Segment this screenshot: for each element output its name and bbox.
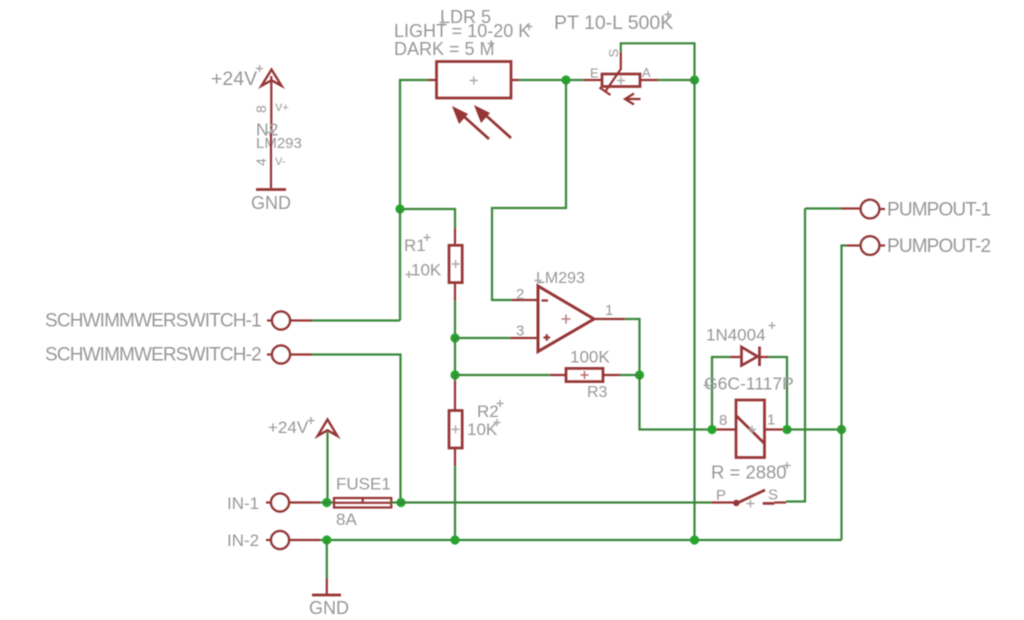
svg-text:100K: 100K (570, 348, 610, 367)
svg-text:R2: R2 (477, 402, 499, 421)
wire SCHWIMMWERSWITCH-1 to node (312, 319, 400, 321)
svg-text:+24V: +24V (211, 68, 257, 90)
junction at 566,80 (561, 75, 570, 84)
pot terminal label A (642, 65, 651, 80)
svg-text:DARK = 5 M: DARK = 5 M (394, 39, 495, 59)
pin name V- (275, 156, 286, 168)
svg-text:G6C-1117P: G6C-1117P (704, 374, 794, 394)
pin number 3 (516, 323, 524, 340)
svg-text:SCHWIMMWERSWITCH-1: SCHWIMMWERSWITCH-1 (45, 311, 261, 332)
svg-text:4: 4 (253, 158, 269, 166)
svg-text:LIGHT = 10-20 K: LIGHT = 10-20 K (394, 21, 530, 41)
relay coil value R = 2880 (711, 462, 791, 483)
wire pin3 node to op-amp (455, 337, 510, 339)
LDR value line LIGHT = 10-20 K (394, 21, 533, 41)
potentiometer pin A stub (640, 79, 658, 81)
potentiometer PT 10-L 500K label (554, 11, 673, 34)
ground pin stub bottom (326, 578, 328, 594)
IC N2 value LM293 (256, 135, 302, 152)
LDR light arrow 1 (452, 106, 489, 139)
svg-text:A: A (642, 65, 651, 80)
pin number 2 (516, 286, 524, 303)
connector IN-1 label (227, 494, 259, 513)
wire IN-1 to fuse (320, 501, 334, 503)
connector PUMPOUT-1 pin stub (841, 207, 861, 209)
connector PUMPOUT-2 pin stub (847, 244, 862, 246)
relay switch contact P label (716, 487, 726, 504)
pot terminal label E (590, 66, 599, 81)
wire R1 bottom to pin3 node (454, 301, 456, 338)
connector IN-1 pin stub (289, 501, 321, 503)
LDR pin stubs (428, 79, 519, 81)
wire IN-2 line to PUMPOUT-2 branch (320, 539, 842, 541)
wire LDR right to pot node (519, 79, 584, 81)
pin number 4 (253, 158, 269, 166)
wire +24V arrow down to fuse input node (326, 432, 328, 503)
supply +24V bottom label (268, 417, 315, 437)
svg-text:2: 2 (516, 286, 524, 303)
svg-text:10K: 10K (411, 261, 442, 280)
connector IN-2 label (227, 531, 259, 550)
svg-text:S: S (606, 49, 621, 58)
wire PUMPOUT-1 to vertical (805, 207, 841, 209)
svg-text:3: 3 (516, 323, 524, 340)
photoresistor LDR body (437, 62, 512, 99)
resistor R2 body (449, 411, 462, 449)
svg-text:GND: GND (251, 193, 291, 213)
svg-text:SCHWIMMWERSWITCH-2: SCHWIMMWERSWITCH-2 (45, 345, 261, 366)
connector PUMPOUT-2 pad (861, 236, 885, 255)
op-amp LM293 label (535, 270, 586, 287)
pin number 8 (253, 105, 269, 113)
diode 1N4004 label (706, 322, 776, 345)
svg-text:8A: 8A (336, 510, 357, 529)
ground symbol GND top (256, 188, 286, 191)
fuse FUSE1 label (336, 475, 391, 494)
wire node to R1 top (400, 209, 455, 228)
svg-text:FUSE1: FUSE1 (336, 475, 391, 494)
op-amp minus sign pin2 (542, 299, 549, 301)
ground label GND bottom (309, 598, 349, 618)
svg-text:PUMPOUT-1: PUMPOUT-1 (887, 200, 990, 221)
pin number 8 relay (719, 412, 727, 429)
resistor R3 pin stubs (550, 374, 620, 376)
wire R3 right to node (620, 374, 640, 376)
svg-text:1: 1 (767, 412, 775, 429)
resistor R3 body (566, 368, 603, 381)
supply +24V top label (211, 65, 263, 90)
svg-text:PUMPOUT-2: PUMPOUT-2 (887, 236, 990, 257)
junction at 326.8,540 (322, 535, 331, 544)
junction at 400,209 (395, 204, 404, 213)
op-amp pin 2 stub (512, 299, 538, 301)
junction at 401,502.5 (396, 498, 405, 507)
svg-text:V+: V+ (275, 102, 289, 114)
junction at 326.8,502.5 (322, 498, 331, 507)
junction at 787,429.5 (782, 425, 791, 434)
op-amp U LM293 triangle (538, 286, 594, 352)
resistor R3 designator (587, 384, 608, 401)
ground label GND top (251, 193, 291, 213)
junction at 711,429.5 (707, 425, 716, 434)
wire pot A to node (658, 79, 695, 81)
pin number 1 (605, 302, 613, 319)
wire PUMPOUT-2 down to IN-2 line (842, 246, 847, 541)
svg-text:GND: GND (309, 598, 349, 618)
pin 8 V+ of N2 (power pin) (270, 76, 272, 133)
wire pot S to A-side node (621, 43, 695, 80)
potentiometer pin E stub (584, 79, 602, 81)
fuse FUSE1 value 8A (336, 510, 357, 529)
op-amp center origin cross (562, 315, 571, 324)
LDR value line DARK = 5 M (394, 39, 495, 59)
relay switch contact S bar (763, 501, 786, 505)
potentiometer adjust arrow (625, 94, 641, 105)
IC N2 designator (256, 120, 278, 140)
svg-text:IN-1: IN-1 (227, 494, 259, 513)
resistor R2 pin stubs (454, 381, 456, 466)
connector PUMPOUT-1 pad (861, 200, 885, 219)
relay switch contact P pin (711, 500, 740, 506)
op-amp output pin 1 stub (594, 318, 625, 320)
supply +24V top arrow symbol (262, 70, 282, 86)
diode D1 symbol (742, 347, 760, 367)
potentiometer body (602, 74, 640, 87)
relay G6C-1117P label (704, 374, 794, 394)
connector SCHWIMMWERSWITCH-1 pin stub (290, 319, 313, 321)
connector SCHWIMMWERSWITCH-2 pad (267, 346, 290, 364)
connector PUMPOUT-1 label (887, 200, 990, 221)
resistor R1 value 10K (406, 261, 442, 280)
wire fuse output to relay switch P (391, 501, 711, 503)
wire relay pin1 to PUMPOUT-2 branch (787, 428, 842, 430)
wire node down to R2 top (454, 375, 456, 381)
pot terminal label S (606, 49, 621, 58)
diode pin stubs (730, 356, 769, 358)
resistor R3 value 100K (570, 348, 610, 367)
relay switch blade (736, 490, 765, 504)
svg-text:R1: R1 (404, 236, 426, 255)
connector SCHWIMMWERSWITCH-1 label (45, 311, 261, 332)
connector IN-1 pad (266, 494, 289, 512)
resistor R1 designator (404, 234, 431, 255)
wire diode left to relay pin 8 node (712, 357, 730, 430)
svg-text:V-: V- (275, 156, 286, 168)
resistor R1 pin stubs (454, 228, 456, 301)
connector SCHWIMMWERSWITCH-1 pad (267, 312, 290, 330)
relay switch contact S label (768, 487, 778, 504)
wire R2 bottom to IN-2 line (454, 466, 456, 540)
svg-text:R = 2880: R = 2880 (711, 462, 787, 483)
wire pot-left node down and to op-amp pin 2 (492, 80, 566, 300)
wire R3 node down to relay pin 8 (640, 375, 713, 430)
wire long vertical from pot node down to IN-2 line (693, 80, 695, 540)
svg-text:E: E (590, 66, 599, 81)
potentiometer wiper (600, 52, 621, 95)
wire diode right to relay pin 1 node (769, 357, 788, 430)
svg-text:8: 8 (253, 105, 269, 113)
junction at 694.5,80 (690, 75, 699, 84)
svg-text:1N4004: 1N4004 (706, 326, 766, 345)
fuse FUSE1 body (334, 498, 391, 508)
junction at 841.5,429.5 (837, 425, 846, 434)
op-amp plus sign pin3 (544, 334, 551, 341)
resistor R2 designator (477, 400, 504, 421)
wire switch S to PUMPOUT-1 line (786, 209, 805, 502)
junction at 694.5,540 (690, 535, 699, 544)
op-amp pin 3 stub (510, 337, 538, 339)
relay K1 coil body (736, 400, 765, 458)
pin name V+ (275, 102, 289, 114)
junction at 455,338 (450, 333, 459, 342)
svg-text:10K: 10K (467, 420, 498, 439)
ground symbol GND bottom (312, 594, 341, 597)
LDR light arrow 2 (474, 105, 511, 138)
junction at 455,375 (450, 370, 459, 379)
wire R3 left to node (455, 374, 550, 376)
connector SCHWIMMWERSWITCH-2 label (45, 345, 261, 366)
svg-text:LM293: LM293 (256, 135, 302, 152)
connector SCHWIMMWERSWITCH-2 pin stub (290, 353, 313, 355)
pin 4 V- of N2 (power pin) (270, 133, 272, 188)
connector IN-2 pin stub (289, 539, 321, 541)
wire node down to SCHWIMMWERSWITCH-1 (399, 209, 401, 321)
svg-text:8: 8 (719, 412, 727, 429)
svg-text:S: S (768, 487, 778, 504)
LDR label LDR 5 (440, 7, 492, 27)
supply +24V bottom arrow symbol (318, 420, 338, 436)
resistor R2 value 10K (467, 419, 501, 439)
junction at 455,540 (450, 535, 459, 544)
connector IN-2 pad (266, 531, 289, 549)
wire node down to R3 node (454, 338, 456, 375)
wire SCHWIMMWERSWITCH-2 down to fuse output node (312, 355, 401, 503)
relay coil pin stubs (712, 428, 787, 430)
svg-text:R3: R3 (587, 384, 608, 401)
pin number 1 relay (767, 412, 775, 429)
svg-text:PT 10-L 500K: PT 10-L 500K (554, 12, 673, 34)
junction at 639.5,375 (635, 370, 644, 379)
svg-text:LM293: LM293 (536, 270, 585, 287)
resistor R1 body (449, 245, 462, 282)
svg-text:IN-2: IN-2 (227, 531, 259, 550)
svg-text:1: 1 (605, 302, 613, 319)
wire IN-2 node down to ground (326, 540, 328, 578)
wire op-amp output down to R3 node (625, 319, 640, 375)
relay switch origin cross (746, 500, 754, 508)
connector PUMPOUT-2 label (887, 236, 990, 257)
wire LDR left down to node (400, 80, 428, 209)
svg-text:+24V: +24V (268, 418, 309, 437)
